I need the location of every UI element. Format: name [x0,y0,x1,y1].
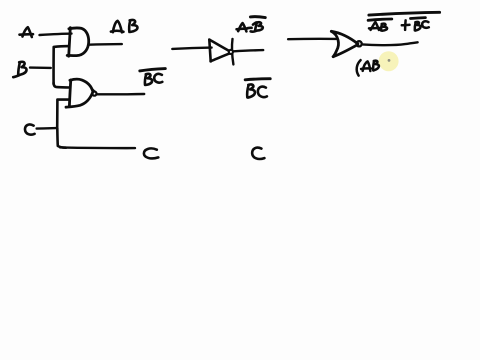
inverter U3 [209,40,210,62]
input label A [23,27,32,37]
bubble U2 [92,92,96,96]
stroke through U3 output [232,39,233,65]
input label B [18,63,20,75]
label + [404,20,407,30]
input label C [25,124,35,134]
label (AB [357,60,361,76]
label BC overline [411,16,426,20]
wire C [37,127,56,130]
label C (of BC) [422,21,429,28]
label A-Bbar (above U3) [238,23,246,31]
wire B riser to gates [54,46,70,84]
nor-gate U4 [332,32,339,57]
label C (mid) [252,148,264,159]
and-gate U1 [69,28,71,57]
wire C riser to gate [57,100,69,128]
wire U3 output [234,50,263,51]
wire U3 input [172,48,211,49]
label AB overline [368,19,392,20]
wire U1 output [89,43,122,46]
label A (of AB) [371,22,379,30]
bubble U4 [357,41,362,46]
label ABbar+BCbar long overline [369,12,440,15]
wire U4 output [362,42,418,45]
nor-gate U2 [69,80,70,106]
label AB (top) [113,21,122,33]
wire U4 input [288,38,336,41]
wire B [30,66,51,69]
label C (bottom-left end) [144,148,158,158]
wire C drop to bottom [57,128,66,148]
wire U2 output [97,93,145,96]
label B (of BC) [413,22,416,30]
wire A [40,34,72,35]
label BC-bar (mid) [245,79,270,80]
bubble U3 [229,50,233,54]
wire C bottom run [60,146,135,149]
highlight dot [379,51,399,71]
label B (of AB) [380,24,383,30]
label BC-bar (left) [140,69,166,71]
